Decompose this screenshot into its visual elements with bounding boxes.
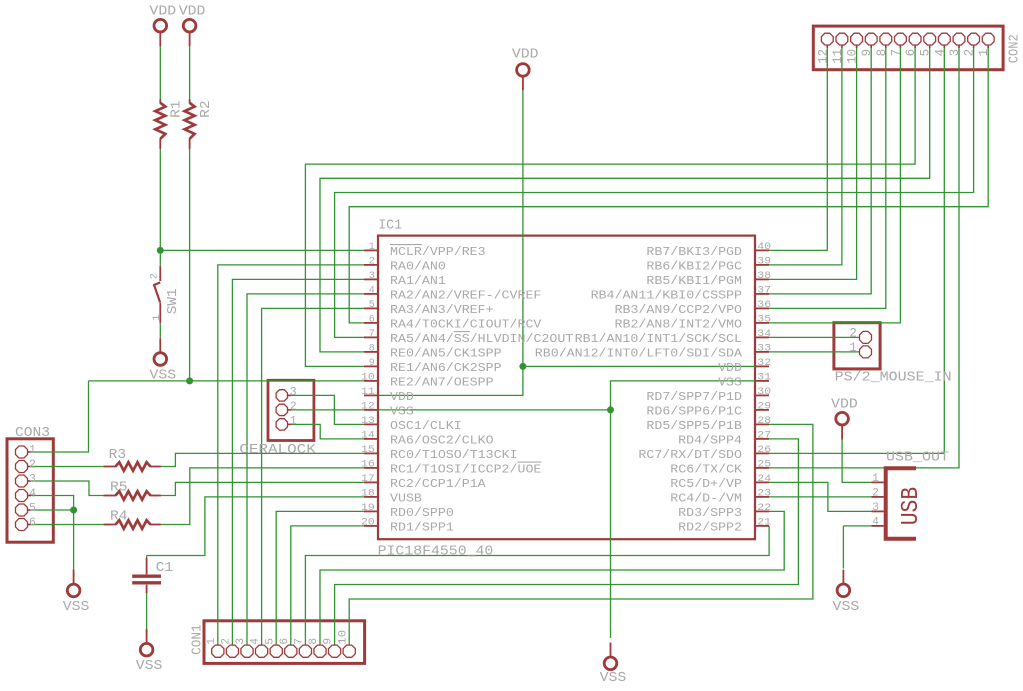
ground VSS (C1) <box>136 629 163 674</box>
junction MCLR/R1/SW1 <box>157 247 164 254</box>
svg-text:1: 1 <box>849 341 857 355</box>
wire CERALOCK pin3 to IC pin13 <box>288 395 365 424</box>
svg-text:3: 3 <box>369 271 375 282</box>
svg-text:6: 6 <box>279 638 291 645</box>
svg-text:32: 32 <box>757 358 771 369</box>
svg-text:RD5/SPP5/P1B: RD5/SPP5/P1B <box>646 419 742 433</box>
wire net MCLR: R1 to IC pin1 and SW1 <box>160 148 364 266</box>
svg-text:VUSB: VUSB <box>390 491 422 505</box>
svg-text:RD7/SPP7/P1D: RD7/SPP7/P1D <box>646 390 742 404</box>
connector PS/2_MOUSE_IN body <box>834 323 880 369</box>
wire net RE2: R2 / CON3 pin1 / IC pin10 <box>28 148 364 452</box>
svg-text:3: 3 <box>948 49 962 57</box>
svg-text:5: 5 <box>264 638 276 645</box>
svg-text:9: 9 <box>860 49 874 57</box>
connector USB body and pins <box>872 468 926 539</box>
svg-text:C1: C1 <box>156 560 174 576</box>
resistor R4 <box>103 508 160 528</box>
svg-text:R2: R2 <box>198 100 214 118</box>
svg-text:VDD: VDD <box>390 390 414 404</box>
wire net USB_OUT CON2 pin3 to IC pin25 <box>769 46 959 468</box>
svg-text:OSC1/CLKI: OSC1/CLKI <box>390 419 462 433</box>
svg-text:R3: R3 <box>109 447 127 463</box>
svg-text:8: 8 <box>369 344 375 355</box>
ground VSS (CON3) <box>63 570 90 615</box>
svg-text:RD0/SPP0: RD0/SPP0 <box>390 506 454 520</box>
svg-text:VDD: VDD <box>831 397 858 413</box>
svg-text:29: 29 <box>757 402 771 413</box>
net label USB_OUT <box>886 449 949 465</box>
wire net CON3 pin2 - R3 - IC pin15 <box>28 453 364 466</box>
svg-text:RB5/KBI1/PGM: RB5/KBI1/PGM <box>646 274 742 288</box>
svg-text:1: 1 <box>206 638 218 645</box>
svg-text:VSS: VSS <box>390 404 414 418</box>
svg-text:PS/2_MOUSE_IN: PS/2_MOUSE_IN <box>835 369 952 385</box>
svg-text:3: 3 <box>235 638 247 645</box>
svg-text:RC7/RX/DT/SDO: RC7/RX/DT/SDO <box>638 448 742 462</box>
svg-text:36: 36 <box>757 300 771 311</box>
svg-text:RA6/OSC2/CLKO: RA6/OSC2/CLKO <box>390 433 494 447</box>
svg-text:12: 12 <box>361 402 375 413</box>
svg-text:RB2/AN8/INT2/VMO: RB2/AN8/INT2/VMO <box>615 317 743 331</box>
svg-text:7: 7 <box>889 49 903 57</box>
svg-text:4: 4 <box>29 488 36 501</box>
svg-text:8: 8 <box>875 49 889 57</box>
connector CON2 name label <box>1006 34 1022 63</box>
wire net CON3 pin3 - R5 - IC pin17 <box>28 481 364 496</box>
svg-text:1: 1 <box>977 49 991 57</box>
wire CON1 pin10 to IC pin28 <box>349 424 813 644</box>
svg-text:VDD: VDD <box>149 4 176 20</box>
svg-text:4: 4 <box>933 49 947 57</box>
svg-text:25: 25 <box>757 460 771 471</box>
wire VDD to USB pin1 <box>842 437 871 482</box>
svg-text:6: 6 <box>29 517 36 530</box>
svg-text:RD1/SPP1: RD1/SPP1 <box>390 520 454 534</box>
power VDD (USB) <box>831 397 858 440</box>
wire CON1 pin6 to IC pin20 <box>291 526 364 645</box>
svg-text:RC5/D+/VP: RC5/D+/VP <box>670 477 742 491</box>
wire CON2 pin6 to IC pin9 <box>305 46 915 367</box>
svg-text:2: 2 <box>963 49 977 57</box>
connector CON2 body <box>813 26 1003 70</box>
IC1 reference label <box>378 218 402 234</box>
connector CON1 pads and pin numbers <box>206 630 355 658</box>
svg-text:RC4/D-/VM: RC4/D-/VM <box>670 491 742 505</box>
svg-text:VDD: VDD <box>512 47 539 63</box>
svg-text:VSS: VSS <box>833 599 860 615</box>
svg-text:10: 10 <box>361 373 375 384</box>
wire CON2 pin1 to IC pin6 <box>349 46 988 323</box>
svg-text:13: 13 <box>361 416 375 427</box>
wire CON2 pin2 to IC pin7 <box>335 46 974 338</box>
svg-text:RD2/SPP2: RD2/SPP2 <box>678 520 742 534</box>
svg-text:RE1/AN6/CK2SPP: RE1/AN6/CK2SPP <box>390 361 502 375</box>
svg-text:14: 14 <box>361 431 375 442</box>
junction CON3 GND <box>70 507 77 514</box>
wire SW1 to VSS <box>159 323 161 339</box>
svg-text:11: 11 <box>831 49 845 64</box>
wire CON1 pin3 to IC pin4 <box>247 294 364 645</box>
svg-text:2: 2 <box>29 459 36 472</box>
svg-text:USB_OUT: USB_OUT <box>886 449 949 465</box>
svg-text:28: 28 <box>757 416 771 427</box>
svg-text:RD6/SPP6/P1C: RD6/SPP6/P1C <box>646 404 742 418</box>
svg-text:20: 20 <box>361 518 375 529</box>
resonator CERALOCK body <box>268 380 314 440</box>
svg-text:34: 34 <box>757 329 771 340</box>
wire CON1 pin8 to IC pin22 <box>320 511 784 644</box>
svg-text:9: 9 <box>323 638 335 645</box>
IC1 right pin names and numbers <box>535 242 771 534</box>
capacitor C1 <box>132 558 173 593</box>
svg-text:1: 1 <box>369 242 375 253</box>
wire IC pin33 to PS/2 pin1 <box>769 351 859 353</box>
wire CON1 pin1 to IC pin2 <box>218 265 364 645</box>
svg-text:4: 4 <box>250 638 262 645</box>
wire CON1 pin5 to IC pin19 <box>276 511 364 644</box>
svg-text:5: 5 <box>919 49 933 57</box>
svg-text:R1: R1 <box>169 100 185 118</box>
connector CON3 pads and pin numbers <box>16 444 37 530</box>
junction R2/CON3 pin1/IC pin10 <box>186 377 193 384</box>
svg-text:VSS: VSS <box>718 375 742 389</box>
svg-text:10: 10 <box>337 630 349 645</box>
svg-text:1: 1 <box>290 415 297 428</box>
connector CON1 name label <box>189 624 205 655</box>
IC1 left pin names and numbers <box>361 242 573 534</box>
svg-text:2: 2 <box>849 326 857 340</box>
svg-text:CON3: CON3 <box>15 425 50 441</box>
wire CON2 pin12 to IC pin40 <box>769 46 827 251</box>
resonator CERALOCK name label <box>239 442 316 458</box>
svg-text:35: 35 <box>757 315 771 326</box>
svg-text:6: 6 <box>904 49 918 57</box>
power VDD (R2) <box>179 4 206 47</box>
svg-text:RA5/AN4/SS/HLVDIN/C2OUT: RA5/AN4/SS/HLVDIN/C2OUT <box>390 332 573 346</box>
wire CON2 pin4 to IC pin26 <box>769 46 944 454</box>
svg-text:4: 4 <box>369 286 375 297</box>
svg-text:RE0/AN5/CK1SPP: RE0/AN5/CK1SPP <box>390 346 502 360</box>
wire VDD to R2 <box>189 46 191 99</box>
svg-text:37: 37 <box>757 286 771 297</box>
IC1 value label PIC18F4550_40 <box>378 544 494 560</box>
ground VSS (SW1) <box>149 338 176 383</box>
resistor R2 <box>185 99 214 149</box>
svg-text:9: 9 <box>369 358 375 369</box>
svg-text:6: 6 <box>369 315 375 326</box>
svg-text:VDD: VDD <box>718 361 742 375</box>
svg-text:VSS: VSS <box>136 658 163 674</box>
connector CON3 body <box>7 439 53 542</box>
svg-text:3: 3 <box>872 502 879 514</box>
wire CON1 pin2 to IC pin3 <box>232 279 364 644</box>
svg-text:RA2/AN2/VREF-/CVREF: RA2/AN2/VREF-/CVREF <box>390 288 541 302</box>
svg-text:RB3/AN9/CCP2/VPO: RB3/AN9/CCP2/VPO <box>615 303 743 317</box>
svg-text:2: 2 <box>290 401 297 414</box>
wire C1 to VSS <box>146 593 148 636</box>
wire CON2 pin7 to IC pin35 <box>769 46 900 323</box>
svg-text:RB7/BKI3/PGD: RB7/BKI3/PGD <box>646 245 742 259</box>
svg-text:CERALOCK: CERALOCK <box>239 442 316 458</box>
svg-text:USB: USB <box>898 487 925 526</box>
svg-text:1: 1 <box>151 315 163 321</box>
svg-text:11: 11 <box>361 387 375 398</box>
svg-text:7: 7 <box>369 329 375 340</box>
svg-text:40: 40 <box>757 242 771 253</box>
junction VSS at IC pin12 row <box>607 406 614 413</box>
svg-text:5: 5 <box>369 300 375 311</box>
svg-text:2: 2 <box>221 638 233 645</box>
svg-text:18: 18 <box>361 489 375 500</box>
connector CON3 name label <box>15 425 50 441</box>
svg-text:RC1/T1OSI/ICCP2/UOE: RC1/T1OSI/ICCP2/UOE <box>390 462 541 476</box>
svg-text:RA4/T0CKI/CIOUT/RCV: RA4/T0CKI/CIOUT/RCV <box>390 317 542 331</box>
svg-text:RC6/TX/CK: RC6/TX/CK <box>670 462 743 476</box>
svg-text:27: 27 <box>757 431 771 442</box>
wire IC pin34 to PS/2 pin2 <box>769 336 859 338</box>
svg-text:21: 21 <box>757 518 771 529</box>
svg-text:16: 16 <box>361 460 375 471</box>
svg-text:MCLR/VPP/RE3: MCLR/VPP/RE3 <box>390 245 486 259</box>
connector PS/2_MOUSE_IN name label <box>835 369 952 385</box>
svg-text:23: 23 <box>757 489 771 500</box>
svg-text:8: 8 <box>308 638 320 645</box>
svg-text:VSS: VSS <box>600 670 627 686</box>
svg-text:IC1: IC1 <box>378 218 402 234</box>
svg-text:22: 22 <box>757 503 771 514</box>
wire IC pin23 to USB pin2 <box>769 496 872 498</box>
wire CON1 pin9 to IC pin27 <box>335 439 799 645</box>
svg-text:15: 15 <box>361 445 375 456</box>
svg-text:4: 4 <box>872 517 879 529</box>
ground VSS (IC) <box>600 643 627 686</box>
svg-text:VSS: VSS <box>149 368 176 384</box>
junction VDD at IC pin32 row <box>519 363 526 370</box>
ground VSS (USB) <box>833 570 860 615</box>
svg-text:10: 10 <box>846 49 860 64</box>
svg-text:39: 39 <box>757 257 771 268</box>
svg-text:2: 2 <box>872 488 879 500</box>
connector PS/2_MOUSE_IN pads and pin numbers <box>849 326 871 358</box>
svg-text:12: 12 <box>816 49 830 64</box>
svg-text:R5: R5 <box>110 479 128 495</box>
svg-text:VSS: VSS <box>63 599 90 615</box>
wire IC pin24 to USB pin3 <box>769 482 872 511</box>
wire CON2 pin11 to IC pin39 <box>769 46 842 265</box>
svg-text:24: 24 <box>757 474 771 485</box>
wire CON1 pin7 to IC pin21 <box>305 526 769 645</box>
wire CON1 pin4 to IC pin5 <box>262 308 364 644</box>
svg-text:19: 19 <box>361 503 375 514</box>
svg-text:CON1: CON1 <box>189 624 205 655</box>
svg-text:2: 2 <box>148 273 160 279</box>
svg-text:RB6/KBI2/PGC: RB6/KBI2/PGC <box>646 259 742 273</box>
svg-text:RA0/AN0: RA0/AN0 <box>390 259 446 273</box>
svg-text:33: 33 <box>757 344 771 355</box>
svg-text:RB0/AN12/INT0/LFT0/SDI/SDA: RB0/AN12/INT0/LFT0/SDI/SDA <box>535 346 743 360</box>
wire CON2 pin9 to IC pin37 <box>769 46 871 294</box>
svg-text:2: 2 <box>369 257 375 268</box>
svg-text:26: 26 <box>757 445 771 456</box>
resistor R3 <box>103 447 160 471</box>
wire USB pin4 to VSS <box>843 526 871 569</box>
IC1 body outline <box>378 236 755 540</box>
svg-text:RD4/SPP4: RD4/SPP4 <box>678 433 742 447</box>
svg-text:RA3/AN3/VREF+: RA3/AN3/VREF+ <box>390 303 494 317</box>
svg-text:17: 17 <box>361 474 375 485</box>
resistor R5 <box>103 479 160 499</box>
wire net VDD column to IC pin32 and pin11 <box>364 91 769 396</box>
wire VDD to R1 <box>159 46 161 99</box>
resistor R1 <box>155 99 184 149</box>
wire net VSS: IC pin12, pin31, bottom VSS <box>288 381 770 638</box>
wire net CON3 pin6 - R4 - IC pin16 <box>28 468 364 525</box>
connector CON2 pads and pin numbers <box>816 33 994 64</box>
svg-text:CON2: CON2 <box>1006 34 1022 63</box>
switch SW1 <box>148 266 180 323</box>
svg-text:R4: R4 <box>110 508 128 524</box>
svg-text:RA1/AN1: RA1/AN1 <box>390 274 446 288</box>
svg-text:PIC18F4550_40: PIC18F4550_40 <box>378 544 494 560</box>
wire CON2 pin8 to IC pin36 <box>769 46 886 309</box>
wire net GND CON3 pins 4,5 to VSS <box>28 496 74 576</box>
svg-text:30: 30 <box>757 387 771 398</box>
svg-text:31: 31 <box>757 373 771 384</box>
wire net VUSB: C1 to IC pin18 <box>147 497 364 560</box>
svg-text:3: 3 <box>29 473 36 486</box>
svg-text:VDD: VDD <box>179 4 206 20</box>
svg-text:7: 7 <box>294 638 306 645</box>
svg-text:38: 38 <box>757 271 771 282</box>
svg-text:RE2/AN7/OESPP: RE2/AN7/OESPP <box>390 375 494 389</box>
svg-text:RB4/AN11/KBI0/CSSPP: RB4/AN11/KBI0/CSSPP <box>591 288 742 302</box>
svg-text:1: 1 <box>872 473 879 485</box>
connector CON1 body <box>204 621 365 664</box>
svg-text:RC0/T1OSO/T13CKI: RC0/T1OSO/T13CKI <box>390 448 518 462</box>
svg-text:1: 1 <box>29 444 36 457</box>
svg-text:5: 5 <box>29 502 36 515</box>
IC1 PIC18F4550 pins <box>364 250 769 526</box>
svg-text:RC2/CCP1/P1A: RC2/CCP1/P1A <box>390 477 486 491</box>
svg-text:RB1/AN10/INT1/SCK/SCL: RB1/AN10/INT1/SCK/SCL <box>575 332 742 346</box>
wire CON2 pin10 to IC pin38 <box>769 46 857 280</box>
wire CERALOCK pin1 to IC pin14 <box>288 424 365 439</box>
resonator CERALOCK pads and pin numbers <box>276 386 297 430</box>
power VDD (IC) <box>512 47 539 91</box>
svg-text:3: 3 <box>290 386 297 399</box>
wire CON2 pin5 to IC pin8 <box>320 46 930 352</box>
svg-text:RD3/SPP3: RD3/SPP3 <box>678 506 742 520</box>
svg-text:SW1: SW1 <box>165 288 181 314</box>
power VDD (R1) <box>149 4 176 47</box>
